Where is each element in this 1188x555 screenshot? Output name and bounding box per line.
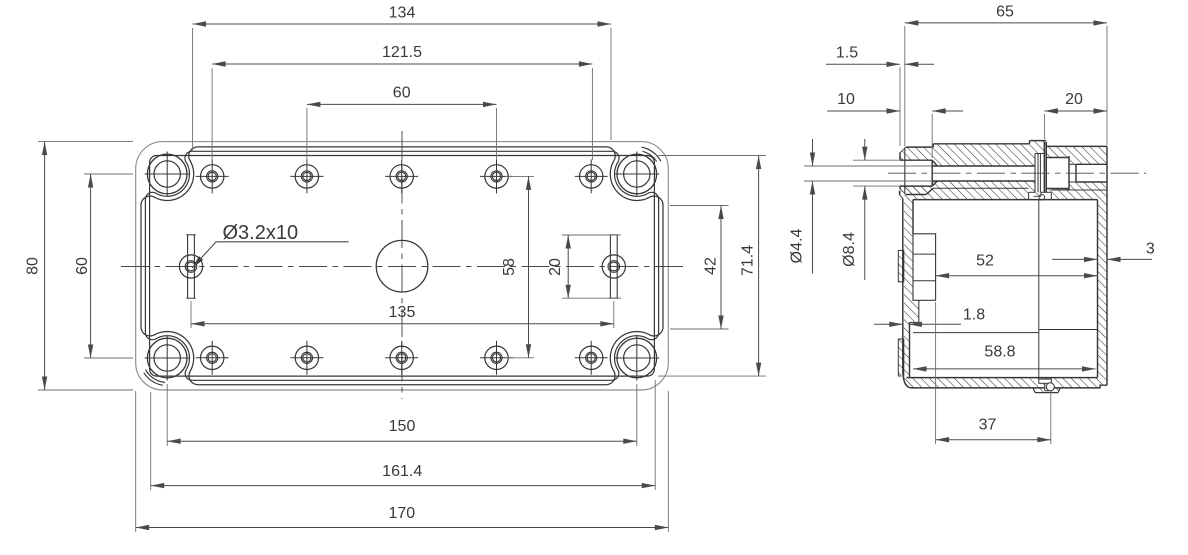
svg-text:60: 60	[393, 85, 411, 102]
extension lines dim 37	[935, 302, 937, 444]
lid screw hole at (307,176)	[295, 165, 318, 188]
svg-text:58.8: 58.8	[984, 344, 1015, 361]
sector mark on corner hole BL	[146, 370, 165, 383]
exit channel walls	[1076, 163, 1107, 165]
dim 1.8 (skirt wall)	[874, 323, 903, 325]
extension lines for dim 60 top	[306, 108, 308, 160]
hatch: left outer tab lower	[898, 339, 904, 376]
hatch: boss left section lower / top wall band	[933, 181, 1028, 200]
extension line bore step	[931, 114, 933, 158]
cavity floor	[907, 377, 1098, 379]
right wall faces	[1097, 200, 1099, 378]
boss nose outline	[899, 152, 901, 160]
white cover outside nose chamfers	[900, 147, 907, 153]
centre hole of lid	[376, 240, 428, 292]
extension line V2 lid joint	[904, 26, 906, 146]
corner screw hole BR	[617, 338, 657, 378]
vertical centreline of plan view	[401, 131, 403, 399]
extension lines for dim 42	[670, 205, 729, 207]
screw seat heavy lines	[1043, 142, 1045, 193]
extension lines for dim 121.5	[211, 68, 213, 160]
svg-text:170: 170	[388, 505, 415, 522]
extension line pocket	[1043, 114, 1045, 139]
corner screw hole TR	[617, 154, 657, 194]
svg-text:Ø3.2x10: Ø3.2x10	[223, 222, 299, 244]
hatch: boss right section lower	[1051, 189, 1107, 200]
washer step	[1075, 164, 1077, 182]
lid screw notch below boss	[1028, 192, 1030, 199]
bottom screw ledge (white)	[1039, 379, 1052, 383]
left outer tab lower outline	[898, 339, 904, 376]
left wall outer face upper	[899, 191, 901, 195]
lid screw hole at (402,358)	[390, 346, 413, 369]
hatch: bottom wall	[904, 378, 1100, 388]
svg-text:134: 134	[389, 4, 416, 21]
boss step up at nose end	[932, 144, 934, 147]
hatch: boss nose upper	[900, 147, 933, 160]
extension lines for dim 170	[135, 391, 137, 532]
svg-text:150: 150	[389, 418, 416, 435]
left outer tab upper outline	[898, 250, 904, 281]
hatch: left wall thin skirt	[904, 322, 910, 377]
svg-text:58: 58	[501, 258, 518, 276]
svg-text:Ø4.4: Ø4.4	[789, 229, 806, 264]
side mounting hole at x=191	[179, 255, 202, 278]
dim 42	[720, 206, 722, 330]
interior step lines	[913, 332, 1039, 334]
extension lines for dim 20 (slot)	[562, 234, 621, 236]
dim 3 (wall)	[1052, 258, 1098, 260]
dim 58 (hole row spacing)	[528, 176, 530, 357]
white mask outside bottom-left corner radius	[901, 370, 912, 388]
screw channel Ø4.4 walls	[932, 165, 1035, 167]
svg-text:135: 135	[389, 304, 416, 321]
dim 37 (foot position)	[936, 439, 1051, 441]
lid screw hole at (496,358)	[485, 346, 508, 369]
dim 10 (counterbore depth)	[827, 110, 900, 112]
extension lines dia 8.4	[853, 159, 900, 161]
dim 60 left (corner hole spacing)	[90, 174, 92, 358]
lid screw hole at (402,176)	[390, 165, 413, 188]
dim 71.4 (lid recess height)	[758, 156, 760, 377]
extension lines for dim 161.4	[150, 392, 152, 490]
dim Ø8.4	[864, 139, 866, 160]
hatch: above screw slot	[1035, 144, 1046, 154]
svg-text:20: 20	[547, 258, 564, 276]
extension lines for dim 80	[38, 141, 133, 143]
leader and label Ø3.2x10	[192, 256, 203, 268]
lid screw hole at (591,176)	[580, 165, 603, 188]
boss top edge left section	[933, 143, 1029, 145]
left view lid contour A (outer recess line with corner bulges)	[141, 147, 663, 385]
corner screw hole BL	[147, 338, 187, 378]
lid screw hole at (591,358)	[580, 346, 603, 369]
bottom outer edge	[903, 370, 1107, 388]
extension line V1 nose face	[899, 67, 901, 146]
hatch: boss right section upper	[1046, 146, 1069, 157]
dim 58.8 (inner width at bottom)	[913, 368, 1096, 370]
dim 134	[193, 23, 611, 25]
screw head pocket	[1046, 157, 1069, 159]
lid screw hole at (496,176)	[485, 165, 508, 188]
right outer face at boss	[1106, 146, 1108, 192]
lid screw hole at (307,358)	[295, 346, 318, 369]
svg-text:1.5: 1.5	[836, 44, 858, 61]
dim 1.5	[826, 63, 900, 65]
left wall inner face	[912, 200, 914, 234]
side mounting hole at x=614	[602, 255, 625, 278]
svg-text:60: 60	[74, 257, 91, 275]
dim 161.4 (recess width)	[151, 485, 656, 487]
sector mark on corner hole TR	[642, 147, 661, 161]
lid screw notch step detail	[1034, 192, 1042, 196]
left view outer body outline	[136, 142, 669, 390]
hatch: nose root band	[900, 186, 933, 200]
lid screw hole at (212,358)	[201, 346, 224, 369]
dim Ø4.4	[812, 139, 814, 166]
svg-text:37: 37	[979, 417, 997, 434]
interior pillar line	[1038, 200, 1040, 378]
hatch: boss nose lower	[900, 186, 930, 194]
svg-text:71.4: 71.4	[740, 245, 757, 276]
side mounting slot at x=191	[187, 235, 189, 298]
svg-text:80: 80	[25, 257, 42, 275]
hatch: left wall step	[904, 300, 919, 322]
side mounting slot at x=614	[609, 235, 611, 298]
lid screw hole at (212,176)	[201, 165, 224, 188]
svg-text:52: 52	[976, 253, 994, 270]
bottom screw hook detail	[1045, 384, 1051, 391]
corner screw hole TL	[147, 154, 187, 194]
svg-text:Ø8.4: Ø8.4	[841, 232, 858, 267]
section centreline	[888, 172, 1146, 174]
hatch: boss latch tab	[1030, 141, 1047, 144]
boss underside edge	[933, 187, 1028, 189]
dim 20 (right)	[1044, 110, 1107, 112]
counterbore step and chamfers	[931, 160, 933, 186]
horizontal centreline of plan view	[121, 266, 683, 268]
extension lines for dim 60 left	[84, 173, 133, 175]
extension lines for dim 150	[166, 384, 168, 446]
extension lines for dim 58	[505, 175, 534, 177]
hatch: right wall	[1098, 200, 1108, 378]
svg-text:3: 3	[1146, 241, 1155, 258]
hatch: left wall upper	[904, 198, 913, 300]
extension lines for dim 134	[192, 28, 194, 152]
dim 65 (boss length)	[905, 22, 1107, 24]
extension lines for dim 135	[190, 301, 192, 328]
extension lines for dim 71.4	[658, 155, 766, 157]
svg-text:42: 42	[703, 257, 720, 275]
screw slot verticals	[1034, 154, 1036, 193]
lower interior step	[918, 300, 920, 322]
dim 20 (slot length)	[567, 235, 569, 298]
dim 121.5	[212, 63, 592, 65]
dim 60 top	[307, 103, 497, 105]
cavity ceiling	[913, 199, 1098, 201]
left view lid contour B (inner recess line with corner bulges)	[145, 151, 658, 380]
extension line right outer face	[1106, 26, 1108, 145]
latch tab outline	[1029, 141, 1031, 144]
dim 52 (inner width at step)	[936, 275, 1098, 277]
hatch: boss left section upper	[933, 144, 1035, 166]
left view lid contour C (innermost recess rounded rectangle)	[150, 156, 655, 377]
hatch: bottom screw foot	[1033, 388, 1061, 393]
svg-text:1.8: 1.8	[963, 307, 985, 324]
dim 170 (overall width)	[136, 527, 669, 529]
interior step quads	[913, 234, 936, 300]
svg-text:161.4: 161.4	[382, 463, 422, 480]
dim 150 (corner hole spacing)	[167, 440, 637, 442]
dim 80 (left overall height)	[44, 142, 46, 390]
boss right section top edge	[1046, 145, 1107, 147]
svg-text:121.5: 121.5	[382, 44, 422, 61]
dim 135 (side feature spacing)	[191, 323, 614, 325]
svg-text:10: 10	[837, 91, 855, 108]
extension lines dia 4.4	[804, 165, 932, 167]
hatch: left outer tab upper	[898, 250, 904, 281]
svg-text:20: 20	[1065, 91, 1083, 108]
lid joint line on nose	[904, 147, 906, 194]
bottom screw foot outline	[1033, 388, 1035, 393]
counterbore Ø8.4 walls	[900, 159, 932, 161]
svg-text:65: 65	[996, 4, 1014, 21]
